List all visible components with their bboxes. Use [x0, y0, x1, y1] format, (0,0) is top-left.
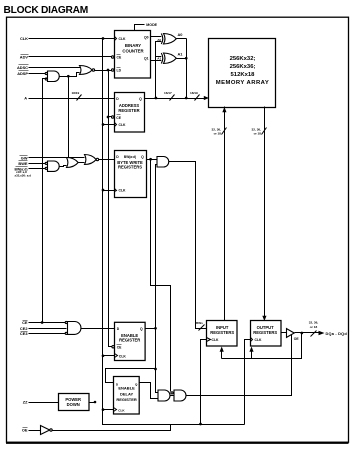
gate BUF1 output buffer [287, 329, 295, 338]
signal CE3 label [20, 331, 28, 336]
wire load bus vertical x108 [109, 71, 112, 347]
node enable delay D loop tap [154, 368, 157, 371]
svg-text:512Kx18: 512Kx18 [231, 72, 256, 78]
wire ZZ to power down [29, 402, 59, 404]
wire CE feedback vertical x42 [43, 79, 48, 323]
enable delay title [116, 386, 137, 403]
svg-text:A0: A0 [178, 32, 183, 37]
node arrowhead into memory array [204, 96, 209, 100]
svg-text:CE3: CE3 [20, 331, 28, 336]
wire enable delay D loop [106, 369, 156, 383]
wire CLK stub byte write [103, 190, 115, 192]
svg-text:REGISTER: REGISTER [118, 108, 139, 113]
node clock bus tap byte write [102, 189, 105, 192]
output registers U11 box [251, 321, 282, 347]
address register U4 box [115, 93, 145, 133]
svg-text:CE: CE [116, 116, 121, 120]
svg-text:Q1: Q1 [144, 57, 149, 61]
wire ADSP feedback vertical x68 [68, 77, 70, 159]
node clock bus tap addr [102, 123, 105, 126]
signal BW(a-d) label [15, 167, 28, 172]
svg-text:Q: Q [139, 97, 142, 101]
wire BWE to NAND2 [29, 163, 47, 165]
memory array title [216, 56, 269, 86]
wire ADSC to NOR [29, 67, 81, 69]
svg-text:DOWN: DOWN [67, 402, 80, 407]
gate NAND U1 (ADSP qualifier, inverted inputs) [45, 71, 59, 82]
signal ADSC label [17, 65, 29, 71]
svg-text:CLK: CLK [119, 37, 127, 41]
svg-text:16/17: 16/17 [164, 91, 172, 95]
svg-text:18/19: 18/19 [190, 91, 198, 95]
node load line to vertical x108 [107, 69, 110, 72]
svg-text:DQa - DQd: DQa - DQd [326, 331, 348, 336]
input registers pin CLK [207, 338, 220, 343]
wire MODE stub [135, 25, 145, 31]
node slash 16/17 [170, 95, 175, 101]
wire power down output stub [89, 402, 95, 404]
binary counter title [122, 43, 144, 54]
wire AND3 output to BWs vertical [169, 162, 207, 329]
gate OR2 byte write with inverted output [85, 155, 99, 165]
wire DQ output line [295, 332, 319, 334]
address register title [118, 103, 139, 113]
svg-text:ZZ: ZZ [23, 400, 28, 405]
wire A0/A1 feedback vertical x155.9 [155, 42, 163, 100]
wire OE line to clock rail [52, 425, 171, 431]
enable register U7 box [115, 322, 146, 360]
wire writeback arrow into output registers [251, 351, 253, 359]
node DQ slash [311, 331, 317, 337]
memory array U5 box [209, 39, 276, 108]
svg-text:DELAY: DELAY [120, 391, 134, 396]
wire AND6 output to enable register D [81, 328, 115, 330]
power down title [65, 397, 81, 407]
wire OR2 out to byte write register D [99, 159, 115, 161]
wire clock tap output register [245, 340, 251, 425]
wire writeback arrow into input registers [221, 351, 223, 359]
input registers U10 box [207, 321, 238, 347]
gate AND5 output enable (inverted top input) [171, 390, 186, 401]
wire DQ writeback loop [222, 333, 302, 359]
svg-text:OE: OE [22, 428, 28, 433]
svg-text:Q0: Q0 [144, 36, 149, 40]
output registers title [253, 325, 277, 335]
svg-text:ADV: ADV [20, 55, 29, 60]
wire byte write chain down to AND5 [151, 160, 171, 392]
wire CE3 into AND6 [29, 333, 67, 335]
node arrowhead writeback output regs [249, 347, 253, 352]
gate XOR2 [161, 53, 176, 64]
wire CLK input [29, 38, 115, 40]
wire NAND2 out to OR1 [60, 166, 67, 167]
node slash 18/19 out [195, 95, 200, 101]
enable register pin CLK [115, 354, 127, 359]
wire GW to OR2 [29, 157, 85, 159]
gate XOR1 [161, 34, 176, 45]
svg-text:A0: A0 [157, 38, 161, 42]
node arrowhead writeback input regs [220, 347, 224, 352]
svg-text:REGISTER: REGISTER [116, 397, 137, 402]
node arrowhead read data into output regs [262, 316, 266, 321]
svg-text:CLK: CLK [118, 408, 125, 412]
signal OE label [22, 428, 28, 433]
node slash read bus [262, 128, 267, 135]
signal BWE label [18, 161, 27, 167]
node CE to ADSP-qualifier junction [41, 321, 44, 324]
svg-text:CLK: CLK [119, 189, 127, 193]
address register pin CE [112, 115, 122, 120]
wire NAND output to NOR bottom input [60, 73, 80, 77]
binary counter pin CLK [115, 37, 127, 42]
binary counter pin CE [112, 55, 122, 60]
svg-text:x32,x36: a:d: x32,x36: a:d [15, 173, 32, 177]
node BWs slash [199, 325, 205, 331]
signal byte write note [15, 170, 32, 178]
wire AND5 output to output buffer enable [187, 335, 292, 396]
svg-text:CE: CE [117, 346, 122, 350]
wire A0/A1 vertical to address bus [186, 39, 188, 99]
svg-text:CLK: CLK [119, 355, 127, 359]
node power down output [94, 401, 97, 404]
binary counter U3 box [115, 31, 151, 79]
power down U9 box [59, 394, 90, 411]
byte write registers U6 box [115, 151, 147, 198]
gate INV1 OE inverter [41, 426, 53, 435]
enable delay register U8 box [114, 377, 140, 415]
wire OE to inverter [29, 430, 41, 432]
node label DQ bus width [309, 321, 319, 330]
wire enable qualifier into AND3 [156, 165, 159, 393]
svg-text:A1: A1 [178, 52, 184, 57]
wire read data vertical array to output regs [264, 107, 266, 317]
svg-text:BWs: BWs [196, 321, 203, 325]
gate AND3 byte write qualify [157, 157, 169, 168]
wire CLK stub enable register [103, 355, 115, 357]
wire write data vertical input regs to array [224, 107, 226, 321]
wire CLK stub address register [103, 124, 115, 126]
wire enable register Q out [145, 328, 156, 330]
signal GW label [20, 155, 28, 160]
svg-text:MEMORY ARRAY: MEMORY ARRAY [216, 80, 269, 86]
node arrowhead DQ [319, 331, 325, 336]
node label write bus width [212, 128, 222, 136]
node DQ junction [300, 332, 303, 335]
node A0/A1 joins address bus [185, 97, 188, 100]
signal ADSP label [17, 71, 28, 77]
wire ADV to counter CE [29, 56, 112, 58]
svg-text:CLK: CLK [20, 36, 28, 41]
wire CLK stub enable delay [103, 409, 114, 411]
wire XOR1 output [177, 38, 187, 40]
svg-text:CE: CE [22, 320, 28, 325]
wire Q1 to XOR2 [151, 60, 163, 62]
wire CE2 into AND6 [29, 328, 67, 330]
svg-text:256Kx32;: 256Kx32; [230, 56, 256, 62]
node enable Q joins vertical [154, 327, 157, 330]
svg-text:REGISTERS: REGISTERS [210, 330, 234, 335]
node byte write Q junction [149, 158, 152, 161]
svg-text:COUNTER: COUNTER [122, 49, 144, 54]
svg-text:LD: LD [117, 69, 122, 73]
gate OR1 byte write [67, 158, 79, 168]
wire AND4 out to AND5 [171, 395, 175, 397]
node NAND output junction [67, 75, 70, 78]
wire OR1 out to OR2 [79, 162, 85, 164]
svg-text:OE: OE [294, 337, 300, 341]
svg-text:Q: Q [141, 155, 144, 159]
signal CE label [22, 320, 28, 325]
wire CE into AND6 [29, 322, 67, 324]
binary counter pin LD [112, 68, 122, 73]
gate AND6 chip enable [65, 321, 81, 334]
byte write pin CLK [115, 189, 127, 193]
svg-text:BINARY: BINARY [125, 43, 141, 48]
address register pin CLK [115, 123, 127, 128]
node A bus slash [77, 95, 82, 101]
wire enable delay Q to AND4 [140, 383, 159, 399]
wire clock taps input register [201, 340, 207, 425]
wire ADSP to NAND [29, 73, 47, 75]
svg-text:BWE: BWE [18, 161, 27, 166]
signal ADV label [20, 55, 29, 60]
wire byte write Q to AND3 [147, 159, 157, 161]
wire CE stub from load bus [109, 116, 112, 118]
svg-text:or 18: or 18 [310, 325, 318, 329]
gate NOR U2 (ADSC/ADSP load) [80, 66, 95, 75]
svg-text:CE2: CE2 [20, 326, 28, 331]
svg-text:CLK: CLK [255, 338, 263, 342]
svg-text:MODE: MODE [146, 23, 157, 27]
byte write title [117, 160, 143, 170]
svg-text:ENABLE: ENABLE [118, 386, 135, 391]
wire NOR output to counter LD [95, 70, 112, 72]
svg-text:GW: GW [21, 155, 28, 160]
output registers pin CLK [251, 338, 263, 343]
node CLK to clock bus junction [102, 37, 105, 40]
svg-text:REGISTERS: REGISTERS [253, 330, 277, 335]
wire BW to NAND2 [29, 168, 47, 170]
node load bus CE tap [107, 116, 110, 119]
input registers title [210, 325, 234, 335]
svg-text:CE: CE [117, 56, 122, 60]
svg-text:REGISTERS: REGISTERS [118, 165, 142, 170]
svg-text:18/19: 18/19 [72, 91, 80, 95]
svg-text:or 18: or 18 [214, 132, 222, 136]
svg-text:CLK: CLK [212, 338, 220, 342]
wire XOR2 output [177, 58, 187, 60]
svg-text:CLK: CLK [119, 123, 127, 127]
node clock bus tap enable [102, 354, 105, 357]
svg-text:REGISTER: REGISTER [119, 338, 140, 343]
svg-text:256Kx36;: 256Kx36; [230, 64, 256, 70]
svg-text:or 18: or 18 [254, 132, 262, 136]
wire output registers Q to buffer [281, 332, 287, 334]
wire A input bus [29, 98, 115, 100]
enable register title [119, 333, 140, 343]
signal CE2 label [20, 326, 28, 331]
node slash write bus [222, 128, 227, 135]
svg-text:A1: A1 [157, 57, 161, 61]
svg-text:ADSP: ADSP [17, 71, 28, 76]
wire clock bus vertical x103 [103, 39, 245, 425]
node label read bus width [252, 128, 262, 136]
wire address register output bus [145, 98, 205, 100]
node clock rail input reg tap [199, 423, 202, 426]
enable delay pin CLK [114, 408, 126, 413]
wire Q0 to XOR1 [151, 36, 163, 38]
enable register pin CE [112, 345, 122, 350]
svg-text:Q: Q [140, 327, 143, 331]
svg-text:BLOCK DIAGRAM: BLOCK DIAGRAM [4, 5, 88, 16]
node XOR2 output junction [185, 57, 188, 60]
signal CLK label [20, 36, 28, 41]
node clock bus tap enable delay [102, 408, 105, 411]
node arrowhead write data into array [222, 107, 226, 112]
svg-text:A: A [24, 96, 27, 101]
gate NAND2 byte write (inverted inputs) [45, 161, 59, 171]
svg-text:ADSC: ADSC [17, 65, 28, 70]
svg-text:32, 36,: 32, 36, [309, 321, 319, 325]
gate AND4 enable combine [158, 390, 170, 401]
svg-text:BW(a:d): BW(a:d) [124, 155, 136, 159]
